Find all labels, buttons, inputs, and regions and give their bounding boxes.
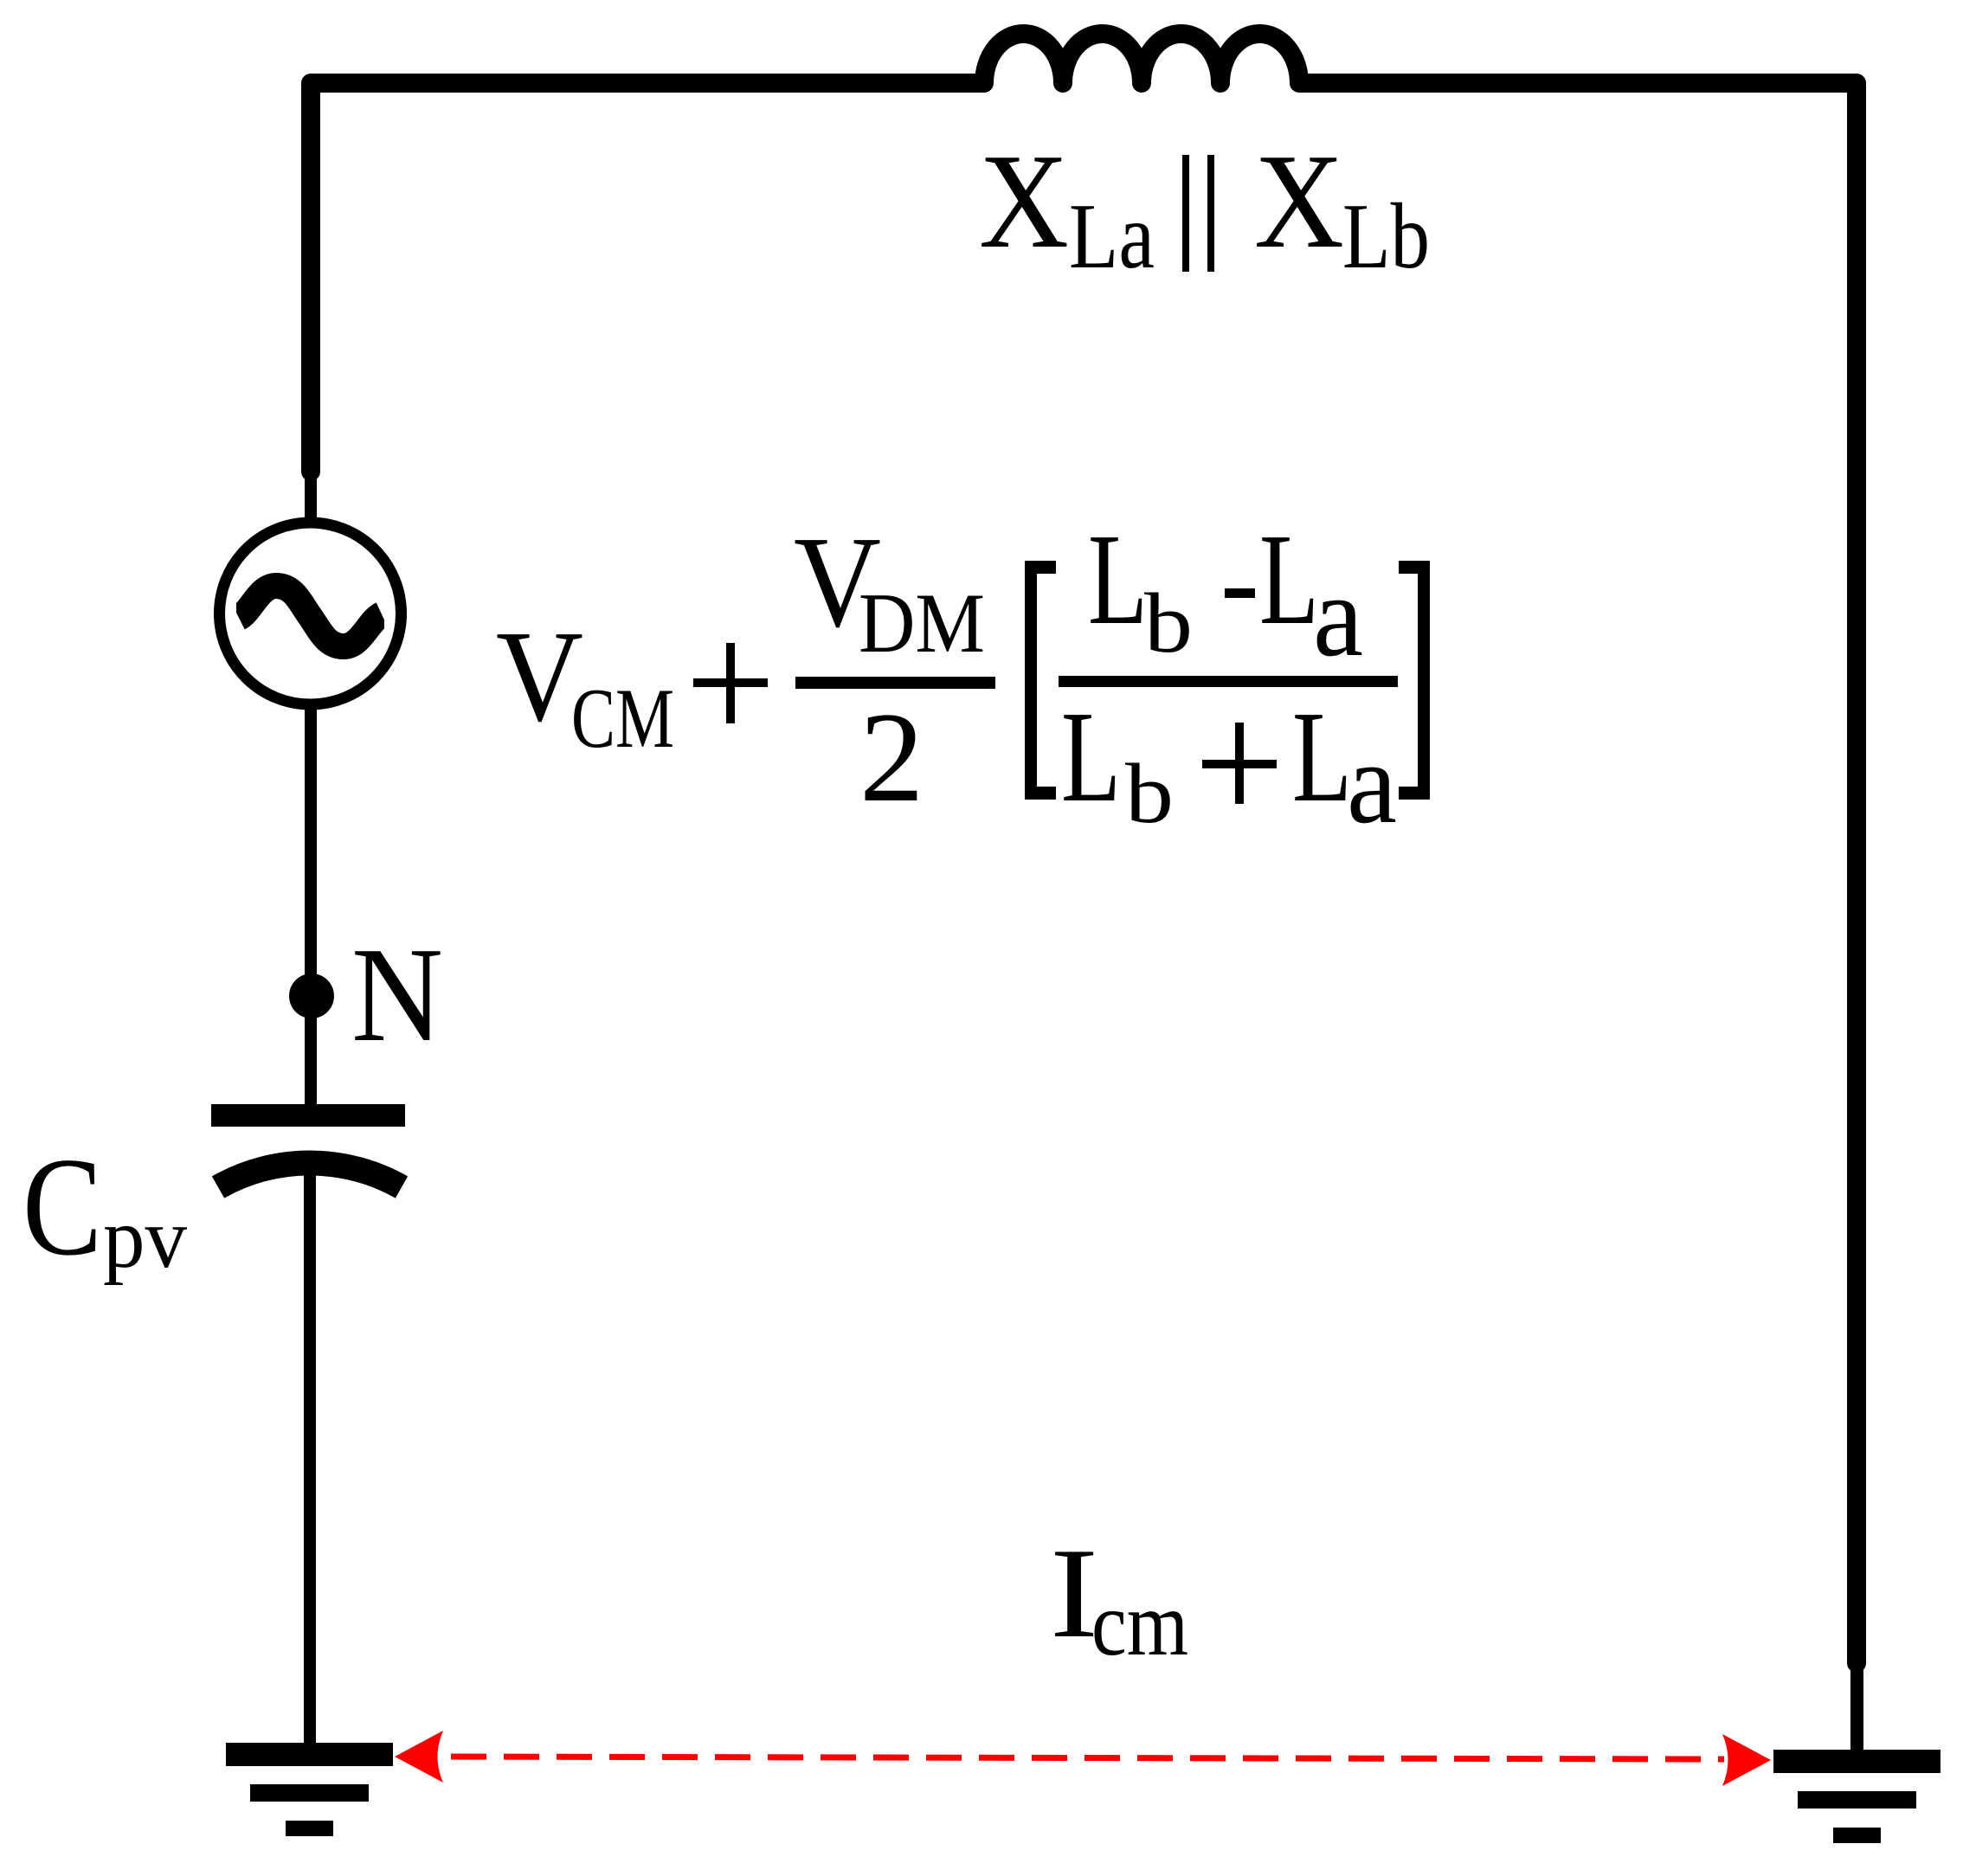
parallel bars symbol	[1182, 155, 1214, 272]
wire lead below source to capacitor	[305, 704, 317, 1112]
capacitor Cpv curved plate	[218, 1163, 402, 1187]
right arrowhead	[1722, 1734, 1771, 1786]
node N junction dot	[289, 973, 334, 1018]
wire below capacitor to left ground	[304, 1164, 316, 1744]
inner fraction bar	[1059, 676, 1398, 687]
current label Icm	[1050, 1522, 1188, 1674]
svg-text:V: V	[496, 603, 583, 748]
source label equation VCM + (VDM/2)[(Lb-La)/(Lb+La)]	[496, 506, 1430, 848]
svg-text:L: L	[1259, 506, 1319, 652]
svg-text:C: C	[23, 1129, 102, 1285]
left arrowhead	[395, 1731, 443, 1783]
svg-text:X: X	[979, 125, 1069, 276]
right bracket	[1418, 561, 1430, 800]
svg-text:La: La	[1069, 185, 1155, 288]
wire lead to right ground	[1850, 1661, 1863, 1751]
ground left (earth symbol)	[226, 1743, 393, 1836]
svg-text:L: L	[1292, 684, 1352, 829]
denominator plus sign	[1202, 760, 1277, 768]
svg-text:L: L	[1061, 684, 1121, 829]
ground right (earth symbol)	[1773, 1750, 1940, 1843]
svg-text:2: 2	[859, 686, 924, 829]
svg-text:N: N	[351, 919, 443, 1070]
left bracket	[1025, 561, 1037, 800]
numerator minus sign	[1225, 588, 1255, 598]
capacitor Cpv top plate	[211, 1104, 405, 1127]
svg-text:DM: DM	[859, 576, 985, 671]
svg-text:b: b	[1125, 747, 1174, 841]
svg-text:a: a	[1347, 719, 1397, 848]
svg-text:a: a	[1313, 552, 1363, 681]
wire main loop (left riser, top run, right riser) with inductor L1 in top run	[311, 34, 1857, 1663]
equation plus sign	[693, 678, 768, 687]
svg-text:b: b	[1144, 576, 1193, 671]
wire lead above source	[305, 472, 317, 524]
Icm current path dashed line	[451, 1757, 1724, 1759]
svg-text:cm: cm	[1091, 1573, 1188, 1674]
svg-text:Lb: Lb	[1342, 185, 1430, 288]
svg-text:X: X	[1254, 125, 1344, 276]
fraction bar VDM/2	[795, 677, 995, 689]
svg-text:L: L	[1088, 506, 1148, 652]
inductor label X_Lb	[1254, 125, 1430, 288]
svg-text:pv: pv	[103, 1190, 187, 1286]
inductor label X_La	[979, 125, 1155, 288]
svg-text:CM: CM	[571, 671, 674, 766]
capacitor label Cpv	[23, 1129, 187, 1286]
AC voltage source V1 circle	[220, 523, 402, 704]
